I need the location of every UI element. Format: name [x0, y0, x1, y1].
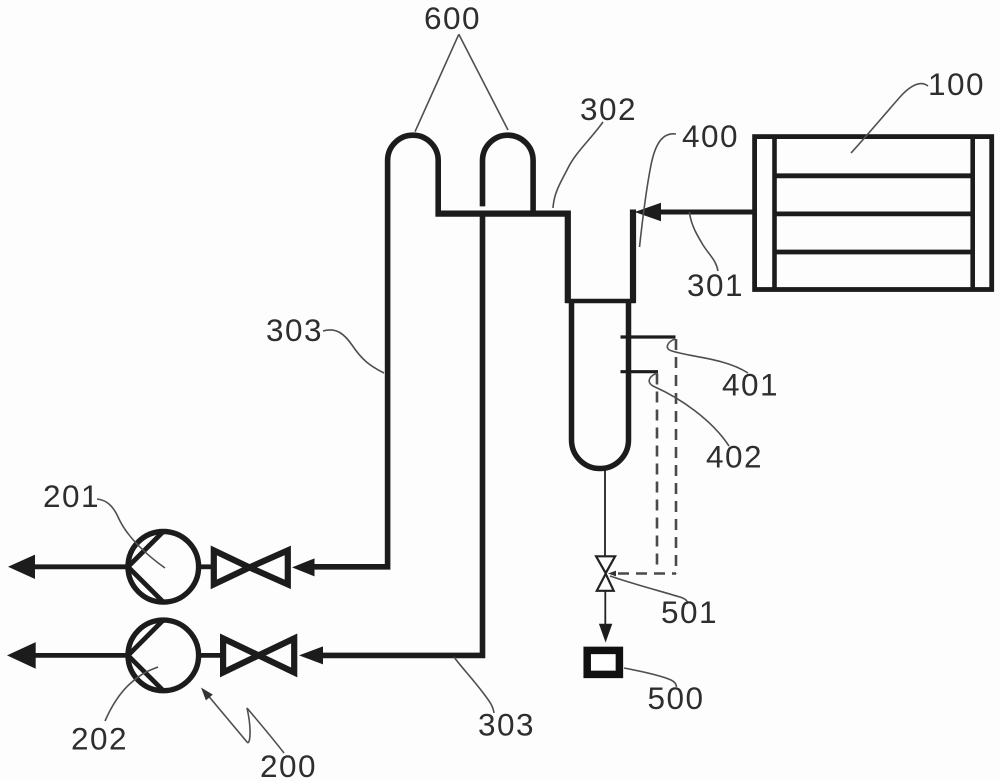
svg-text:201: 201 [43, 478, 100, 514]
svg-text:100: 100 [928, 66, 985, 102]
svg-text:200: 200 [260, 748, 317, 781]
svg-text:500: 500 [648, 680, 705, 716]
svg-text:301: 301 [687, 267, 744, 303]
svg-text:400: 400 [682, 118, 739, 154]
svg-text:401: 401 [722, 367, 779, 403]
svg-text:202: 202 [71, 721, 128, 757]
svg-text:303: 303 [478, 707, 535, 743]
svg-text:302: 302 [580, 91, 637, 127]
svg-text:303: 303 [266, 312, 323, 348]
svg-text:402: 402 [706, 439, 763, 475]
svg-text:600: 600 [424, 0, 481, 36]
svg-text:501: 501 [661, 594, 718, 630]
